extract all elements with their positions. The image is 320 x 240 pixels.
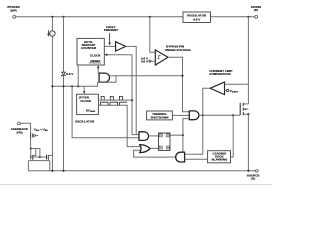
svg-text:6.3 V: 6.3 V [66,72,74,76]
wire FB in [20,123,30,132]
node dot x63 [62,85,64,87]
wire G2 output loop to OR1 lower input [134,150,176,157]
terminal DRAIN (D) [255,15,258,18]
wire mirror source shelf [28,161,49,171]
wire bottom source rail [28,170,255,172]
gate G2 drive AND [176,152,185,162]
wire Q2 drain down [30,138,32,148]
wire arrow into oscillator top [83,86,85,91]
gate OR1 to latch R [140,145,150,153]
svg-text:(D): (D) [254,8,258,12]
wire below current source [51,36,53,171]
wire clock into counter with arrow [107,54,132,56]
waveform clock pulses [101,96,122,100]
terminal FEEDBACK (FB) [18,122,21,125]
op-amp U3 UV comparator [155,50,168,65]
svg-text:CLOCK: CLOCK [90,53,102,57]
node junction top wire x=52.4 [51,16,53,18]
node dot x72 [71,85,73,87]
wire clock out [98,99,132,101]
wire fault present arrow down [109,33,111,42]
svg-text:(S): (S) [251,176,255,180]
svg-text:RESET: RESET [91,59,101,63]
wire mid horizontal y=86.3 [52,82,97,86]
svg-text:UNDER-VOLTAGE: UNDER-VOLTAGE [165,48,191,52]
latch U5 [159,133,171,151]
box thermal shutdown [147,111,173,120]
wire counter bottom down to FB node [77,65,79,86]
waveform DCmax [100,102,127,105]
terminal BYPASS (BP) [13,15,16,18]
node dot MOSFET source [247,113,249,115]
wire clock vertical [132,55,139,135]
transistor Q2 feedback [30,133,32,139]
gate AND3 [189,111,199,120]
svg-text:PRESENT: PRESENT [104,28,118,32]
node dot rail x63 [62,170,64,172]
edge artifact bottom [0,183,272,185]
wire DCmax out [98,105,140,146]
transistor Q3 mirror left [30,149,32,155]
svg-text:BLANKING: BLANKING [211,158,228,162]
wire LEB output to G2 lower input [185,158,208,160]
wire G1 loop below [98,76,117,83]
transistor Q4 mirror right [46,155,48,160]
svg-text:COMPARATOR: COMPARATOR [209,72,231,76]
node dot mirror top [30,147,32,149]
svg-text:(FB): (FB) [16,130,22,134]
box oscillator [77,94,99,114]
pin bubble UV inverting input [149,60,151,62]
wire buffer out right then down (fault line) [126,46,137,134]
node junction top wire x=63.5 [62,16,64,18]
node dot mirror gates [39,156,41,158]
node dot latch Q [182,134,184,136]
wire latch Q up to AND3 bottom input [183,119,189,136]
buffer U2 [116,42,126,51]
wire thermal out to AND3 mid input [172,114,189,116]
svg-text:5.8 V: 5.8 V [193,18,201,22]
svg-text:COUNTER: COUNTER [81,46,97,50]
node dot rail x52 [51,170,53,172]
current source I1 [51,17,53,31]
node dot UV line / G1 line [181,75,183,77]
wire top rail BP to regulator [16,16,183,18]
svg-text:CLOCK: CLOCK [80,99,92,103]
wire BP tap down to UV comparator [150,17,156,52]
node clock dot [131,99,133,101]
wire MOSFET source down to rail [247,114,249,171]
transistor Q1 power MOSFET [239,103,241,115]
svg-text:(BP): (BP) [10,9,16,13]
node junction on top wire at drain branch [247,16,249,18]
wire latch Q out right [170,134,183,136]
node dot x78 [77,85,79,87]
wire below zener [63,75,65,170]
wire CL top input to drain line [225,83,249,85]
node dot LEB tap [232,114,234,116]
node dot rail x248 [247,170,249,172]
box leading edge blanking [208,151,231,163]
node junction top wire x=149.8 [149,16,151,18]
wire FB sense down from x72 then right to AND1 bottom input [72,86,139,138]
gate G1 reset AND [99,73,110,82]
gate AND1 to latch S [139,132,149,141]
svg-text:4.8 V: 4.8 V [141,60,149,64]
svg-text:SHUTDOWN: SHUTDOWN [151,115,169,119]
wire UV comparator output down to AND3 top input [168,57,189,112]
wire OR1 out to latch [150,147,158,149]
wire counter to buffer input [104,45,115,47]
zener diode 6.3V [63,17,65,72]
wire G1 output to UV line [110,75,182,77]
svg-text:OSCILLATOR: OSCILLATOR [75,119,95,123]
wire drain vertical [247,17,249,104]
box regulator 5.8V [183,12,211,23]
op-amp U4 current limit comparator (points left) [210,82,224,95]
wire mirror gates tie [31,156,47,158]
node dot drive/CL [202,114,204,116]
wire reset arrow up into counter [97,68,99,73]
wire mirror top [31,149,40,158]
wire regulator to drain [211,16,255,18]
wire AND1 out to latch [149,135,159,137]
wire latch Q down to drive gate [182,135,184,152]
wire AND3 out to MOSFET gate [199,114,240,116]
box auto-restart counter U1 [77,38,104,65]
wire LEB trigger down [231,115,234,157]
pin bubble VILIMIT [225,90,227,92]
terminal SOURCE (S) [255,170,258,173]
wire CL output left then down [185,88,211,154]
node dot x52 [51,85,53,87]
